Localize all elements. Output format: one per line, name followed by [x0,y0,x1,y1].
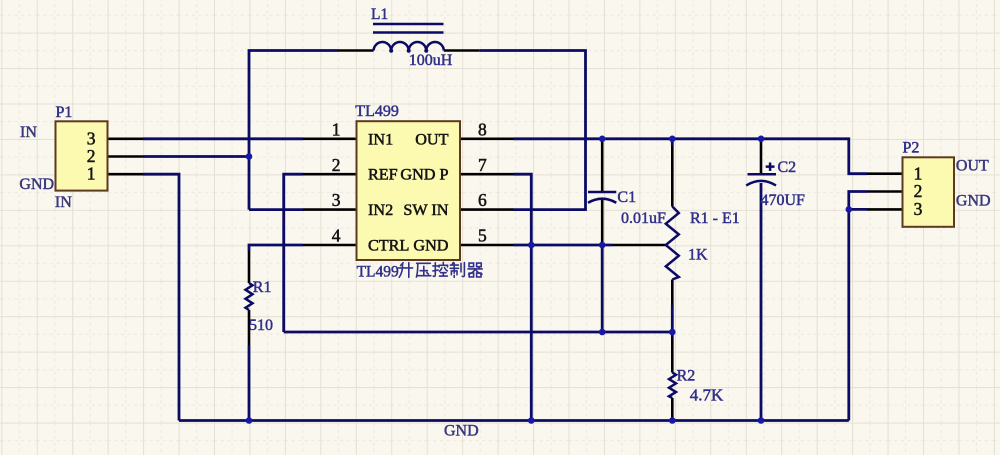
svg-text:1: 1 [332,119,341,139]
pin R1 bottom [248,310,251,346]
pin C1 top [601,140,604,192]
hanzi zhi [450,263,464,278]
IC U1 TL499 [357,121,461,260]
svg-text:100uH: 100uH [409,52,453,69]
pin R1E1 top [671,146,674,207]
wire C1 bottom to mid rail [601,245,604,332]
junction node C2 top [758,136,765,143]
svg-text:GND: GND [413,237,448,255]
svg-text:3: 3 [914,199,923,219]
pin U1.8 [460,138,514,141]
svg-text:OUT: OUT [415,130,448,148]
junction node R2 gnd [669,417,676,424]
wire to U1.3 [249,208,303,211]
pin U1.5 [460,244,514,247]
wire P1.2 to node [143,155,249,158]
svg-text:2: 2 [332,155,341,175]
pin R1E1 wiper [613,244,666,247]
svg-text:GND P: GND P [400,166,448,184]
pin L1 right [444,49,480,52]
svg-text:1: 1 [87,164,96,184]
svg-text:4: 4 [332,226,341,246]
svg-text:R2: R2 [677,367,696,384]
svg-text:0.01uF: 0.01uF [621,210,666,227]
svg-text:4.7K: 4.7K [690,386,724,405]
svg-text:7: 7 [478,155,487,175]
svg-text:8: 8 [478,119,487,139]
svg-text:1K: 1K [688,247,708,264]
pin P1.3 [108,138,144,141]
junction node R1E1 mid [669,329,676,336]
junction node pin5 [528,242,535,249]
pin C1 bottom [601,200,604,246]
wire R1 bottom [248,346,251,421]
pin U1.3 [303,208,357,211]
inductor L1 [374,42,444,50]
wire P2 gnd [849,192,867,421]
pin P1.2 [108,155,144,158]
junction node P2 gnd [846,206,853,213]
capacitor C2 [748,173,777,176]
junction node gnd rail [528,417,535,424]
wire R1E1 bottom [671,305,674,337]
pin P2.2 [867,190,903,193]
rheostat R1-E1 [666,207,679,280]
junction node P1.2 [246,153,253,160]
svg-text:IN: IN [20,124,37,141]
svg-text:TL499: TL499 [357,263,399,280]
wire OUT rail [514,139,868,174]
svg-text:GND: GND [444,423,479,440]
pin U1.4 [303,244,357,247]
svg-text:P2: P2 [903,139,920,156]
pin R2 bottom [671,398,674,421]
hanzi qi [468,263,482,277]
wire P1.3 to U1.1 [143,137,303,140]
wire REF down [284,174,303,332]
wire CTRL [249,245,303,251]
svg-text:6: 6 [478,190,487,210]
svg-text:GND: GND [956,192,991,209]
svg-text:GND: GND [19,176,54,193]
svg-text:C1: C1 [617,189,636,206]
resistor R1 [246,283,253,310]
svg-text:IN2: IN2 [368,201,393,219]
svg-text:C2: C2 [778,159,797,176]
junction node R1 gnd [246,417,253,424]
wire P1.1 to GND corner [143,174,179,420]
svg-text:TL499: TL499 [355,103,399,120]
wire R1E1 top [671,139,674,146]
svg-text:OUT: OUT [956,157,989,174]
resistor R2 [669,373,676,399]
svg-text:SW IN: SW IN [403,201,448,219]
junction node R1E1 top [669,136,676,143]
svg-text:L1: L1 [371,6,388,23]
pin P2.1 [867,172,903,175]
connector P1 [56,121,108,190]
hanzi ya [416,263,430,277]
pin U1.2 [303,173,357,176]
hanzi kong [433,262,448,276]
pin L1 left [338,49,374,52]
junction node C1 bottom [599,242,606,249]
capacitor C1 [588,191,616,194]
wire P2.3 [849,208,867,211]
svg-text:R1 - E1: R1 - E1 [690,210,740,227]
connector P2 [903,157,955,227]
pin U1.6 [460,208,514,211]
wire L1 right to SW IN [479,51,585,210]
pin R1E1 bottom [671,280,674,306]
junction node C1 top [599,136,606,143]
pin R2 top [671,337,674,373]
svg-text:470UF: 470UF [761,192,806,209]
pin C2 top [760,140,763,174]
svg-text:IN1: IN1 [368,130,393,148]
wire C2 bottom [760,183,763,421]
label TL499 chinese subtitle [357,262,483,280]
svg-text:5: 5 [478,226,487,246]
svg-text:P1: P1 [56,104,73,121]
pin R1 top [248,251,251,283]
wire GND rail [179,419,849,422]
wire GND P down [514,174,532,420]
wire node column to IN2 [249,51,338,210]
pin U1.7 [460,173,514,176]
pin P1.1 [108,173,144,176]
svg-text:3: 3 [332,190,341,210]
wire pin5 rail [514,244,613,247]
svg-text:REF: REF [368,166,398,184]
junction node mid rail [599,329,606,336]
svg-text:R1: R1 [253,279,272,296]
pin U1.1 [303,138,357,141]
svg-text:510: 510 [249,317,273,334]
hanzi sheng [398,263,412,278]
pin P2.3 [867,208,903,211]
svg-text:CTRL: CTRL [368,237,409,255]
junction node C2 gnd [758,417,765,424]
wire mid rail [284,331,673,334]
svg-text:IN: IN [55,194,72,211]
